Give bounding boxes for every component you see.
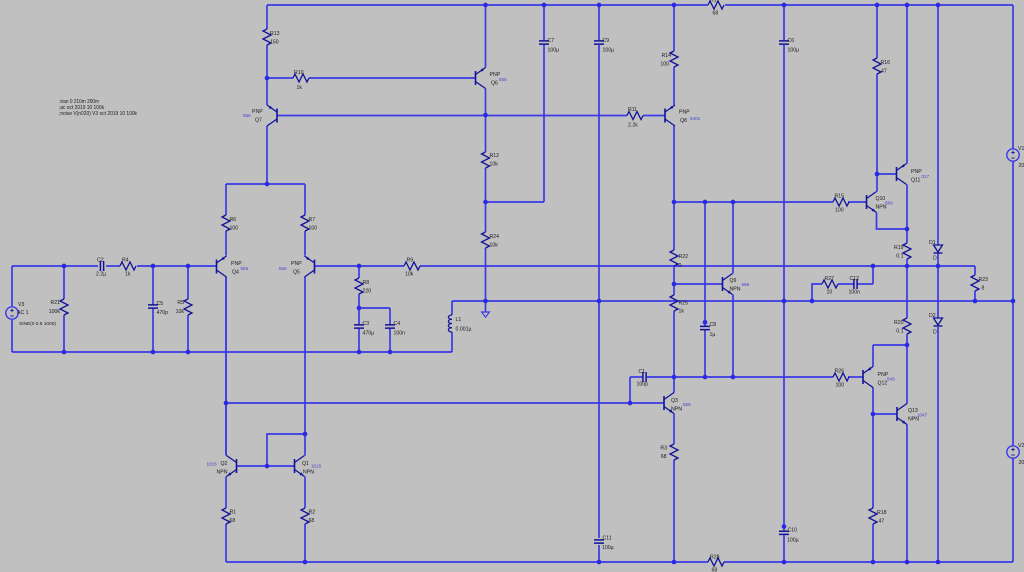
wire Q9 emitter down	[732, 295, 734, 378]
junction top rail / C7	[542, 3, 547, 8]
svg-text:;noise V(n020) V3 oct 2019 10: ;noise V(n020) V3 oct 2019 10 100k	[59, 111, 137, 117]
junction top rail / D1	[936, 3, 941, 8]
svg-text:Q5: Q5	[293, 270, 300, 276]
wire Q12 node to R18	[872, 414, 874, 508]
svg-text:Q3: Q3	[671, 398, 678, 404]
capacitor C7	[539, 38, 559, 54]
wire Q10 emitter down	[877, 213, 908, 230]
junction C8 top	[703, 320, 708, 325]
resistor R6	[222, 215, 238, 232]
wire top positive rail	[267, 4, 708, 6]
svg-text:C10: C10	[788, 528, 798, 534]
wire Q12 emitter link	[873, 344, 907, 346]
wire C4 top lead	[389, 308, 391, 325]
wire R25 bottom lead	[673, 311, 675, 377]
diode D2	[929, 313, 943, 336]
junction bottom rail / C10	[782, 560, 787, 565]
wire R13 top	[266, 5, 268, 29]
svg-text:669: 669	[885, 201, 893, 206]
svg-text:100p: 100p	[637, 382, 649, 388]
wire D1 top	[937, 5, 939, 245]
svg-text:C3: C3	[363, 321, 370, 327]
svg-text:1015: 1015	[207, 462, 218, 467]
junction ground / right edge	[1011, 299, 1016, 304]
svg-text:100k: 100k	[49, 309, 61, 315]
svg-text:0.001µ: 0.001µ	[456, 327, 472, 333]
wire R24 bottom to ground	[485, 248, 487, 301]
wire R8 top lead	[358, 266, 360, 278]
svg-text:100: 100	[836, 383, 845, 389]
junction input / R21	[62, 264, 67, 269]
svg-text:C5: C5	[157, 301, 164, 307]
svg-text:R10: R10	[294, 70, 304, 76]
svg-text:0.1: 0.1	[896, 254, 903, 260]
svg-text:R14: R14	[661, 53, 671, 59]
junction bottom rail / Q13 emitter	[905, 560, 910, 565]
svg-text:100µ: 100µ	[602, 545, 614, 551]
svg-text:AC 1: AC 1	[17, 310, 29, 316]
svg-text:R8: R8	[363, 280, 370, 286]
capacitor C2	[96, 258, 106, 278]
svg-text:R20: R20	[894, 320, 904, 326]
voltage source V1	[1007, 146, 1024, 169]
wire R23 bottom	[974, 291, 976, 301]
wire output to R23	[974, 266, 976, 275]
svg-text:470µ: 470µ	[363, 331, 375, 337]
wire VAS node rail	[674, 376, 833, 378]
wire L1 to ground rail	[451, 301, 453, 315]
resistor R28	[708, 555, 724, 572]
wire Q4 collector down to mirror	[225, 277, 227, 456]
resistor R16	[873, 58, 890, 75]
wire Q8 collector to bias rail	[673, 126, 675, 202]
svg-text:C8: C8	[710, 322, 717, 328]
ground	[482, 312, 490, 317]
wire D2 bottom to rail	[937, 327, 939, 562]
wire C8 top lead	[704, 202, 706, 327]
wire R21 bottom	[63, 315, 65, 352]
wire R13 to Q7 emitter	[266, 45, 268, 105]
wire Q6 base from R10	[267, 77, 293, 79]
capacitor C8	[700, 322, 716, 338]
svg-text:D2: D2	[929, 313, 936, 319]
svg-text:V2: V2	[1018, 443, 1024, 449]
wire zobel R27 to C12	[838, 283, 854, 285]
svg-text:R17: R17	[710, 0, 720, 4]
svg-text:R1: R1	[230, 510, 237, 516]
wire top positive rail right of R17	[725, 4, 1013, 6]
wire ground stub	[485, 301, 487, 312]
svg-text:C9: C9	[603, 38, 610, 44]
junction input / C5	[151, 264, 156, 269]
wire R25 top lead	[673, 284, 675, 295]
svg-text:Q9: Q9	[730, 278, 737, 284]
svg-text:C1: C1	[639, 369, 646, 375]
svg-text:0.1: 0.1	[896, 329, 903, 335]
resistor R27	[822, 276, 838, 296]
svg-text:Q8: Q8	[680, 118, 687, 124]
svg-text:D1: D1	[929, 240, 936, 246]
svg-text:100: 100	[230, 226, 239, 232]
junction top rail / Q6 emitter	[483, 3, 488, 8]
wire L1 top lead	[451, 332, 453, 352]
transistor Q12	[863, 367, 895, 388]
svg-text:10: 10	[827, 290, 833, 296]
resistor R9	[404, 258, 420, 278]
wire R12 top lead	[485, 115, 487, 152]
wire input node	[12, 265, 98, 267]
junction bottom rail / R2	[303, 560, 308, 565]
svg-text:R21: R21	[50, 300, 60, 306]
wire mirror diode loop	[267, 434, 305, 466]
wire R14 to Q8 emitter	[673, 67, 675, 105]
wire Q1 emitter to R2	[304, 477, 306, 509]
svg-text:220: 220	[363, 289, 372, 295]
wire Q5 collector down to Q1	[304, 277, 306, 456]
svg-text:100: 100	[835, 208, 844, 214]
wire zobel drop	[872, 266, 874, 284]
wire R7 top lead	[304, 184, 306, 215]
wire R12 bottom to mid node	[485, 168, 487, 202]
capacitor C4	[385, 321, 405, 337]
wire mid node to C7	[486, 201, 545, 203]
wire C4 bottom lead	[389, 328, 391, 352]
junction mirror output / Q3 base wire	[224, 401, 229, 406]
wire right edge V1 to ground rail	[1012, 161, 1014, 301]
wire C7 bottom	[543, 45, 545, 202]
junction Q6 collector node	[483, 113, 488, 118]
transistor Q9	[723, 274, 750, 295]
spice directive text	[59, 99, 137, 117]
svg-text:R4: R4	[122, 258, 129, 264]
svg-text:1µ: 1µ	[710, 332, 716, 338]
diode D1	[929, 240, 943, 262]
wire ground rail	[452, 300, 1013, 302]
svg-text:10k: 10k	[490, 243, 499, 249]
wire C11 bottom	[598, 545, 600, 562]
svg-text:10k: 10k	[490, 162, 499, 168]
svg-text:100n: 100n	[849, 290, 861, 296]
svg-text:NPN: NPN	[730, 287, 741, 293]
wire R6 to Q4 emitter	[225, 231, 227, 256]
svg-text:R2: R2	[309, 510, 316, 516]
wire C6 top	[783, 5, 785, 40]
wire C2 to R4	[106, 265, 120, 267]
svg-text:R12: R12	[490, 153, 500, 159]
svg-text:100: 100	[660, 62, 669, 68]
wire zobel row	[857, 283, 873, 285]
transistor Q5	[279, 256, 315, 277]
wire output to D2	[937, 266, 939, 318]
inductor L1	[448, 315, 471, 333]
capacitor C11	[594, 536, 614, 552]
svg-text:556: 556	[241, 266, 249, 271]
svg-text:0: 0	[679, 263, 682, 269]
junction input ground / C3	[357, 350, 362, 355]
resistor R3	[660, 444, 678, 460]
junction input ground / R21	[62, 350, 67, 355]
junction input ground / C4	[388, 350, 393, 355]
svg-text:R19: R19	[894, 245, 904, 251]
resistor R4	[120, 258, 136, 278]
wire C8 bottom lead	[704, 330, 706, 378]
svg-text:47: 47	[879, 519, 885, 525]
wire C1 left lead	[630, 376, 642, 378]
transistor Q13	[897, 404, 928, 425]
wire right edge V1 top	[1012, 5, 1014, 149]
svg-text:100µ: 100µ	[603, 48, 615, 54]
wire Q10 collector to Q11 base	[877, 173, 897, 175]
resistor R2	[301, 508, 315, 524]
wire R2 bottom to rail	[304, 524, 306, 562]
wire right edge ground to V2	[1012, 301, 1014, 446]
junction bottom rail / R3	[672, 560, 677, 565]
resistor R19	[894, 243, 911, 260]
junction Q10 emitter / Q11 collector / R19	[905, 227, 910, 232]
resistor R1	[222, 508, 236, 524]
wire C3 top lead	[358, 308, 360, 325]
svg-text:C6: C6	[788, 38, 795, 44]
svg-text:C2: C2	[97, 258, 104, 264]
svg-text:47: 47	[881, 69, 887, 75]
svg-text:NPN: NPN	[217, 470, 228, 476]
svg-text:R25: R25	[679, 301, 689, 307]
svg-text:R24: R24	[490, 234, 500, 240]
wire C5 column	[152, 266, 154, 305]
svg-text:20: 20	[1019, 460, 1024, 466]
wire R5 bottom	[187, 315, 189, 352]
svg-text:556: 556	[243, 113, 251, 118]
svg-text:V3: V3	[18, 302, 24, 308]
wire R5 column	[187, 266, 189, 299]
svg-text:68: 68	[309, 518, 315, 524]
wire ground to C10	[783, 301, 785, 531]
wire Q6 emitter to rail	[485, 5, 487, 68]
wire R7 to Q5 emitter	[304, 231, 306, 256]
wire R14 top	[673, 5, 675, 51]
svg-text:Q1: Q1	[302, 461, 309, 467]
resistor R25	[670, 295, 688, 315]
wire Q7 base net	[277, 115, 627, 117]
wire bottom negative rail right of R28	[724, 561, 1013, 563]
junction output / D1 D2	[936, 264, 941, 269]
wire R6 top lead	[225, 184, 227, 215]
wire C9 down column	[598, 45, 600, 538]
junction output / zobel	[871, 264, 876, 269]
resistor R21	[49, 299, 68, 315]
junction feedback / R8	[357, 264, 362, 269]
svg-text:Q11: Q11	[911, 178, 921, 184]
junction bottom rail / D2	[936, 560, 941, 565]
svg-text:1k: 1k	[297, 85, 303, 91]
svg-text:NPN: NPN	[671, 407, 682, 413]
svg-text:2.2k: 2.2k	[628, 123, 638, 129]
wire C3 bottom lead	[358, 328, 360, 352]
svg-text:R16: R16	[881, 60, 891, 66]
wire V3 bottom	[11, 320, 13, 352]
capacitor C5	[148, 301, 168, 316]
svg-text:100n: 100n	[394, 331, 406, 337]
svg-text:Q7: Q7	[255, 118, 262, 124]
junction R12 R24 C7 mid node	[483, 200, 488, 205]
wire R19 bottom to output	[906, 259, 908, 266]
svg-text:V1: V1	[1018, 146, 1024, 152]
transistor Q1	[295, 456, 322, 477]
svg-text:PNP: PNP	[291, 261, 302, 267]
wire Q13 base	[873, 413, 897, 415]
junction ground / C6 C10 column	[782, 299, 787, 304]
capacitor C6	[779, 38, 799, 54]
svg-text:R3: R3	[660, 446, 667, 452]
transistor Q6	[476, 68, 508, 89]
junction output / R19 R20	[905, 264, 910, 269]
wire Q11 collector	[906, 185, 908, 230]
voltage source V2	[1007, 443, 1024, 466]
resistor R5	[176, 299, 192, 315]
wire R16 to Q10 collector node	[876, 74, 878, 192]
wire C7 top	[543, 5, 545, 40]
junction R8 / C3 C4 branch	[357, 306, 362, 311]
junction ground / zobel	[810, 299, 815, 304]
junction bottom rail / C11	[597, 560, 602, 565]
junction ground / R23	[973, 299, 978, 304]
svg-text:68: 68	[230, 518, 236, 524]
resistor R11	[627, 107, 643, 129]
junction VAS node / R25 C1	[672, 375, 677, 380]
svg-text:017: 017	[922, 174, 930, 179]
junction mirror bases	[265, 464, 270, 469]
junction top rail / R14	[672, 3, 677, 8]
junction ground / C9 column	[597, 299, 602, 304]
capacitor C1	[637, 369, 649, 388]
wire Q2 emitter to R1	[225, 477, 227, 509]
voltage source V3	[6, 302, 57, 327]
wire bottom negative rail	[226, 561, 708, 563]
wire R18 bottom	[872, 524, 874, 562]
resistor R26	[833, 369, 849, 389]
wire C9 top	[598, 5, 600, 40]
wire C3 branch	[359, 307, 390, 309]
svg-text:Q12: Q12	[878, 381, 888, 387]
wire R26 to Q12 base	[848, 376, 863, 378]
svg-text:Q4: Q4	[232, 270, 239, 276]
wire Q13 emitter down	[906, 425, 908, 563]
wire C10 bottom	[783, 534, 785, 562]
svg-text:R22: R22	[679, 254, 689, 260]
svg-text:2.2µ: 2.2µ	[96, 272, 106, 278]
svg-text:C11: C11	[603, 536, 612, 542]
svg-text:R7: R7	[309, 217, 316, 223]
svg-text:100µ: 100µ	[787, 538, 799, 544]
transistor Q2	[207, 456, 237, 477]
wire R8 bottom lead	[358, 294, 360, 308]
junction input ground / R5	[186, 350, 191, 355]
svg-text:549: 549	[887, 377, 895, 382]
svg-text:470p: 470p	[157, 310, 169, 316]
svg-text:10k: 10k	[405, 272, 414, 278]
resistor R23	[971, 275, 988, 292]
junction bottom rail / R18	[871, 560, 876, 565]
wire R15 to Q10 base	[848, 201, 867, 203]
junction top rail / C6	[782, 3, 787, 8]
resistor R13	[263, 29, 280, 46]
svg-text:C7: C7	[548, 38, 555, 44]
wire R19 top lead	[906, 229, 908, 243]
resistor R17	[708, 0, 724, 17]
wire Q2 collector up	[225, 277, 227, 456]
transistor Q8	[665, 105, 701, 126]
wire Q9 collector	[732, 202, 734, 274]
transistor Q11	[897, 164, 930, 185]
junction bias rail / C8	[703, 200, 708, 205]
junction input ground / C5	[151, 350, 156, 355]
junction Q10 collector / Q11 base	[875, 172, 880, 177]
wire Q9 base	[674, 283, 723, 285]
junction C10 top	[782, 524, 787, 529]
wire mirror base rail	[237, 465, 295, 467]
svg-text:8: 8	[982, 286, 985, 292]
svg-text:1k: 1k	[679, 309, 685, 315]
wire zobel left	[812, 284, 822, 301]
wire R22 bottom to Q9 base node	[673, 266, 675, 284]
svg-text:R11: R11	[628, 107, 637, 113]
junction input / R5	[186, 264, 191, 269]
svg-text:R18: R18	[877, 510, 887, 516]
junction bias rail / Q9 collector	[731, 200, 736, 205]
resistor R12	[482, 152, 500, 168]
resistor R22	[670, 250, 688, 269]
wire Q6 collector	[485, 89, 487, 116]
wire R11 to Q8 base	[643, 115, 665, 117]
wire R22 top lead	[673, 202, 675, 250]
wire output through to R20	[906, 266, 908, 318]
junction ground / R24	[483, 299, 488, 304]
wire C1 right lead	[647, 376, 674, 378]
junction VAS node / Q9 emitter	[731, 375, 736, 380]
capacitor C9	[594, 38, 614, 54]
svg-text:1k: 1k	[125, 272, 131, 278]
wire R10 to Q6 base	[309, 77, 476, 79]
svg-text:100µ: 100µ	[548, 48, 560, 54]
svg-text:R23: R23	[979, 277, 989, 283]
junction tail node	[265, 182, 270, 187]
junction R20 / Q12 emitter link	[905, 343, 910, 348]
svg-text:PNP: PNP	[252, 109, 263, 115]
junction Q1 collector / diode loop	[303, 432, 308, 437]
junction top rail / Q11 emitter	[905, 3, 910, 8]
transistor Q10	[867, 192, 894, 213]
wire Q13 collector	[906, 345, 908, 404]
transistor Q4	[217, 256, 249, 277]
junction C1 branch	[628, 401, 633, 406]
svg-text:Q2: Q2	[221, 461, 228, 467]
wire C1 branch down	[629, 377, 631, 403]
wire Q12 collector down	[872, 388, 874, 415]
svg-text:R5: R5	[177, 300, 184, 306]
wire R1 bottom to rail	[225, 524, 227, 562]
junction VAS node / C8	[703, 375, 708, 380]
wire output node rail	[315, 265, 405, 267]
wire C5 bottom	[152, 308, 154, 352]
wire D1 bottom to output	[937, 253, 939, 266]
svg-text:R6: R6	[230, 217, 237, 223]
svg-text:NPN: NPN	[303, 470, 314, 476]
svg-text:R15: R15	[835, 194, 845, 200]
resistor R18	[869, 508, 887, 525]
resistor R24	[482, 232, 500, 249]
wire R24 top lead	[485, 202, 487, 232]
svg-text:100: 100	[309, 226, 318, 232]
